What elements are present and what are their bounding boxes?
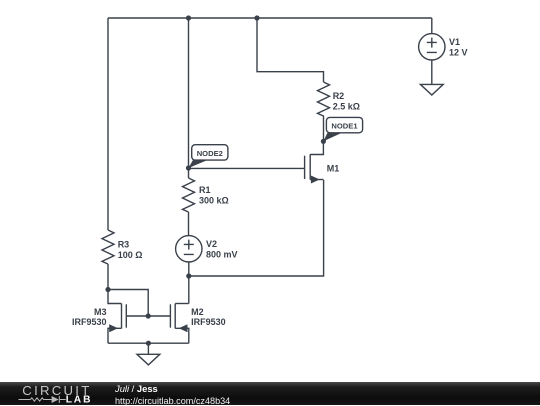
- footer bar: [0, 382, 540, 405]
- node callout NODE2: [189, 145, 228, 168]
- svg-text:M3: M3: [94, 307, 107, 317]
- V1 plus and minus marks: [427, 38, 437, 53]
- wire ground stub: [147, 343, 149, 354]
- junction dot bottom rail / ground: [146, 341, 151, 346]
- wire left rail lower (R3 to M3 drain node): [107, 264, 109, 290]
- wire R2 bottom lead to NODE1: [323, 116, 325, 142]
- svg-text:R1: R1: [199, 185, 211, 195]
- wire R1 bottom lead to V2 plus: [188, 212, 190, 236]
- junction dot gate tie node: [146, 313, 151, 318]
- resistor R3: [102, 230, 114, 264]
- voltage source V1 circle: [419, 34, 445, 60]
- svg-text:IRF9530: IRF9530: [72, 317, 107, 327]
- transistor M2: [170, 304, 188, 344]
- svg-text:NODE1: NODE1: [331, 122, 358, 131]
- wire V2 node to M1 source: [189, 180, 324, 276]
- svg-text:300 kΩ: 300 kΩ: [199, 196, 229, 206]
- svg-text:R3: R3: [118, 239, 130, 249]
- wire top supply rail: [108, 17, 432, 19]
- wire V2 minus lead: [188, 262, 190, 276]
- svg-text:12 V: 12 V: [449, 48, 468, 58]
- junction dot V2 minus node: [186, 273, 191, 278]
- resistor R2: [318, 82, 330, 116]
- voltage source V2 circle: [176, 236, 202, 262]
- junction dot M3 drain node: [105, 287, 110, 292]
- svg-text:LAB: LAB: [66, 395, 93, 406]
- svg-text:M1: M1: [327, 164, 340, 174]
- wire V1 minus lead to ground: [431, 60, 433, 84]
- wire bottom source rail: [108, 342, 189, 344]
- wire M3 drain node to gate tie: [108, 290, 148, 317]
- svg-text:V2: V2: [206, 239, 217, 249]
- transistor M1: [305, 154, 324, 183]
- wire middle rail (top rail down to NODE2): [188, 18, 190, 168]
- svg-text:R2: R2: [333, 91, 345, 101]
- resistor R1: [183, 178, 195, 212]
- CircuitLab logo: [0, 382, 110, 405]
- svg-text:V1: V1: [449, 37, 460, 47]
- wire top rail jog to R2: [257, 18, 324, 82]
- svg-text:2.5 kΩ: 2.5 kΩ: [333, 102, 360, 112]
- ground under V1: [420, 84, 443, 95]
- svg-text:M2: M2: [191, 307, 204, 317]
- wire V2 node down to M2 drain: [188, 276, 190, 304]
- transistor M3: [108, 290, 126, 344]
- svg-text:100 Ω: 100 Ω: [118, 250, 143, 260]
- junction dot top rail / R2 branch: [254, 15, 259, 20]
- V2 plus and minus marks: [184, 240, 194, 255]
- wire NODE2 to M1 gate: [189, 167, 305, 169]
- wire gate tie M3-M2: [126, 315, 170, 317]
- svg-text:800 mV: 800 mV: [206, 250, 238, 260]
- junction middle rail / top rail: [186, 15, 191, 20]
- ground under M2-M3 sources: [137, 354, 160, 365]
- node NODE1 junction dot: [321, 139, 326, 144]
- wire left rail upper (top rail to R3): [107, 18, 109, 230]
- wire R1 top lead: [188, 168, 190, 178]
- wire V1 top lead: [431, 18, 433, 34]
- wire NODE1 to M1 drain: [310, 141, 323, 154]
- node NODE2 junction dot: [186, 165, 191, 170]
- svg-text:NODE2: NODE2: [197, 149, 223, 158]
- svg-text:IRF9530: IRF9530: [191, 317, 226, 327]
- node callout NODE1: [323, 117, 362, 141]
